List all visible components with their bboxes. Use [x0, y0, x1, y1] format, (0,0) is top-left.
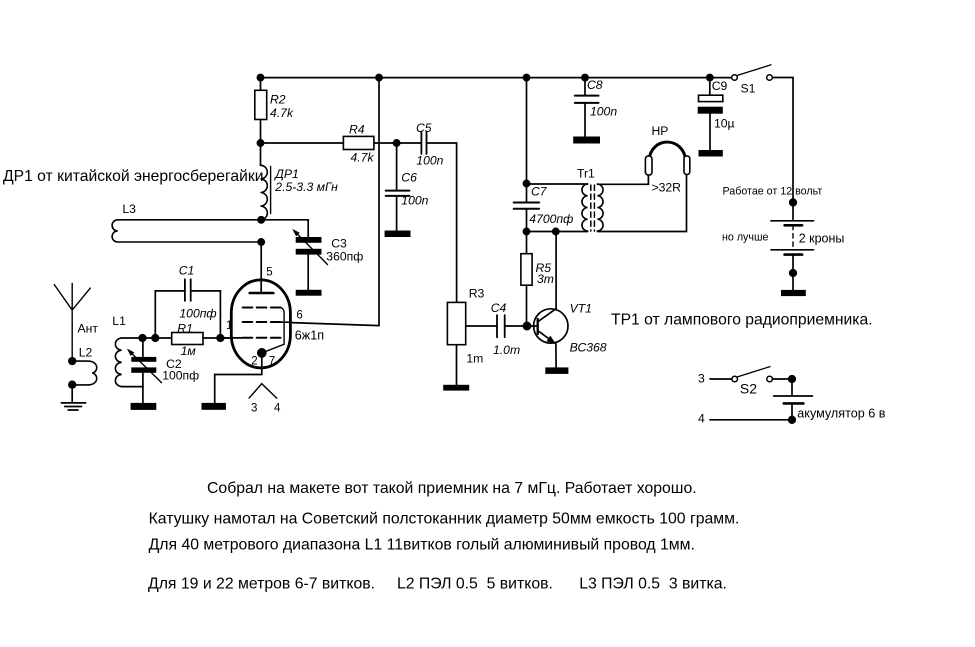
- svg-text:Ант: Ант: [78, 322, 99, 336]
- svg-text:2.5-3.3 мГн: 2.5-3.3 мГн: [274, 180, 338, 194]
- node top rail / C9: [707, 75, 713, 81]
- capacitor C5: [421, 132, 426, 154]
- node antenna / L2 top: [69, 358, 76, 365]
- label S2: [740, 381, 757, 397]
- resistor R5: [521, 254, 532, 326]
- wire R4 row: [261, 142, 422, 144]
- node L3 bottom / tube anode: [258, 239, 264, 245]
- node L2 bottom: [69, 381, 76, 388]
- label tube pin 6: [296, 310, 302, 322]
- label C9 value: [712, 79, 735, 131]
- svg-text:10µ: 10µ: [714, 117, 735, 131]
- ground C9: [699, 150, 723, 157]
- headphones HP: [645, 142, 689, 175]
- svg-text:HP: HP: [652, 124, 669, 138]
- svg-text:4.7k: 4.7k: [270, 106, 294, 120]
- switch S2: [732, 367, 772, 382]
- wire L2 to earth: [71, 385, 73, 403]
- svg-text:C7: C7: [531, 185, 548, 199]
- battery B2 accumulator: [774, 396, 813, 420]
- svg-text:4.7k: 4.7k: [351, 151, 375, 165]
- svg-text:4700пф: 4700пф: [529, 212, 573, 226]
- svg-text:7: 7: [269, 355, 275, 367]
- node battery bottom: [790, 270, 797, 277]
- svg-text:R4: R4: [349, 123, 365, 137]
- svg-text:R1: R1: [177, 321, 193, 335]
- label tube pin 3: [251, 403, 257, 415]
- label R4 value: [349, 123, 374, 165]
- label note TR1 source: [611, 311, 873, 328]
- svg-text:100пф: 100пф: [179, 306, 216, 320]
- wire Tr1 secondary bottom to phones: [597, 175, 686, 232]
- capacitor C8: [575, 77, 599, 137]
- label battery 2 krony: [799, 232, 845, 246]
- earth ground antenna: [61, 403, 85, 410]
- label R2 value: [270, 92, 294, 120]
- svg-text:C3: C3: [331, 237, 347, 251]
- wire Tr1 primary bottom: [527, 231, 588, 233]
- label tube pin 1: [226, 320, 232, 332]
- transformer Tr1 secondary: [597, 184, 603, 231]
- ground C6: [385, 231, 411, 238]
- label S1: [741, 82, 756, 96]
- svg-text:6: 6: [296, 310, 302, 322]
- label VT1 type: [570, 302, 607, 355]
- capacitor C4: [466, 315, 538, 337]
- wire C7 branch from rail: [526, 77, 528, 203]
- svg-text:но лучше: но лучше: [722, 232, 769, 244]
- node B2 bottom: [789, 417, 796, 424]
- resistor R4: [343, 136, 374, 149]
- svg-text:S1: S1: [741, 82, 756, 96]
- arrow C2 variable: [127, 349, 162, 383]
- node C7 top / Tr1 primary top: [523, 180, 529, 186]
- label terminal 3: [698, 372, 705, 386]
- ground tube cathode: [202, 403, 226, 410]
- wire top supply rail: [261, 77, 732, 79]
- node B2 top: [789, 376, 796, 383]
- node top rail / pin6 drop: [376, 75, 382, 81]
- inductor L1: [115, 338, 143, 387]
- svg-text:2 кроны: 2 кроны: [799, 232, 845, 246]
- tube grid pin1 lead: [220, 337, 243, 339]
- svg-text:ДР1: ДР1: [273, 167, 299, 181]
- label R1 value: [177, 321, 196, 358]
- svg-text:Tr1: Tr1: [577, 167, 595, 181]
- inductor L2: [72, 361, 97, 385]
- svg-text:ВС368: ВС368: [570, 341, 607, 355]
- node C7 bottom: [523, 228, 529, 234]
- wire VT1 collector: [555, 232, 557, 309]
- capacitor C9 polarized: [698, 77, 723, 150]
- svg-text:4: 4: [274, 403, 281, 415]
- svg-text:100n: 100n: [401, 193, 428, 207]
- svg-text:R3: R3: [469, 287, 485, 301]
- svg-text:L1: L1: [112, 314, 126, 328]
- svg-text:4: 4: [698, 412, 705, 426]
- wire S2 to battery B2: [773, 379, 793, 396]
- label L3: [122, 202, 136, 216]
- svg-text:Работае от 12 вольт: Работае от 12 вольт: [723, 185, 823, 197]
- ground VT1 emitter: [545, 367, 568, 374]
- svg-text:1m: 1m: [466, 352, 483, 366]
- svg-text:Катушку намотал на Советский п: Катушку намотал на Советский полстоканни…: [149, 511, 740, 528]
- tube heater pins 3-4: [249, 384, 277, 398]
- inductor DR1 choke: [261, 143, 271, 220]
- label note DR1 source: [3, 168, 263, 185]
- ground C8: [573, 137, 600, 144]
- svg-text:3m: 3m: [537, 272, 554, 286]
- node C4 / R5 / base: [523, 322, 530, 329]
- note line 1: [207, 480, 697, 497]
- antenna: [54, 284, 90, 362]
- tube U1 envelope 6zh1p: [231, 280, 290, 368]
- node top rail / R2 top: [257, 75, 263, 81]
- capacitor C7: [514, 203, 539, 254]
- svg-text:R2: R2: [270, 92, 286, 106]
- svg-text:Для 19 и 22 метров 6-7 витков.: Для 19 и 22 метров 6-7 витков. L2 ПЭЛ 0.…: [148, 575, 727, 592]
- tube grid pin6 lead: [281, 321, 292, 323]
- label DR1 value: [273, 167, 338, 194]
- node DR1 bottom / L3 top: [258, 217, 264, 223]
- label C7 value: [529, 185, 573, 227]
- label C6 value: [401, 171, 428, 208]
- svg-text:акумулятор 6 в: акумулятор 6 в: [797, 407, 885, 421]
- wire VT1 emitter to ground: [555, 344, 557, 368]
- svg-text:6ж1п: 6ж1п: [295, 329, 324, 343]
- node C1 left leg: [152, 335, 159, 342]
- wire C3 to ground: [307, 255, 309, 290]
- ground battery B1: [781, 290, 806, 296]
- label tube pin 7: [269, 355, 275, 367]
- label C3 value: [326, 237, 363, 264]
- svg-text:C9: C9: [712, 79, 728, 93]
- label L1: [112, 314, 126, 328]
- tube anode pin5: [250, 242, 274, 293]
- note line 3: [149, 537, 695, 554]
- svg-text:3: 3: [698, 372, 705, 386]
- arrow C3 variable: [292, 229, 327, 265]
- svg-text:L3: L3: [122, 202, 136, 216]
- label C2 value: [162, 357, 199, 383]
- ground C3: [296, 290, 322, 296]
- battery B1 2 krony: [771, 221, 814, 290]
- svg-text:S2: S2: [740, 381, 757, 397]
- svg-text:ДР1 от китайской энергосберега: ДР1 от китайской энергосберегайки: [3, 168, 263, 185]
- svg-text:3: 3: [251, 403, 257, 415]
- wire Tr1 secondary top to phones: [597, 175, 648, 184]
- node collector branch: [553, 228, 559, 234]
- variable capacitor C3: [296, 237, 322, 255]
- resistor R1: [172, 333, 232, 345]
- label C4 value: [491, 301, 520, 357]
- svg-text:Собрал на макете вот такой при: Собрал на макете вот такой приемник на 7…: [207, 480, 697, 497]
- resistor R2: [255, 77, 267, 143]
- svg-text:ТР1 от лампового радиоприемник: ТР1 от лампового радиоприемника.: [611, 311, 873, 328]
- wire S1 to battery: [772, 78, 793, 221]
- svg-text:1м: 1м: [181, 344, 197, 358]
- wire terminal 4: [710, 419, 792, 421]
- label tube type 6zh1p: [295, 329, 324, 343]
- label L2: [79, 346, 93, 360]
- node top rail / C8: [582, 75, 588, 81]
- svg-text:>32R: >32R: [652, 181, 682, 195]
- label HP: [652, 124, 669, 138]
- svg-text:C4: C4: [491, 301, 507, 315]
- svg-text:VT1: VT1: [570, 302, 592, 316]
- node battery top: [790, 199, 797, 206]
- node top rail / C7 branch: [523, 75, 529, 81]
- svg-text:100пф: 100пф: [162, 369, 199, 383]
- transistor VT1: [534, 309, 568, 344]
- label tube pin 2: [251, 355, 257, 367]
- label C1 value: [179, 263, 217, 320]
- label Tr1: [577, 167, 595, 181]
- resistor R3: [447, 302, 465, 384]
- label phones impedance: [652, 181, 682, 195]
- wire terminal 3: [710, 378, 732, 380]
- tube internal screen lead: [264, 308, 285, 353]
- svg-text:L2: L2: [79, 346, 93, 360]
- capacitor C1 bridge: [155, 279, 220, 338]
- label R5 value: [536, 261, 554, 286]
- wire node to C3: [261, 220, 308, 237]
- svg-text:Для 40 метрового диапазона L1: Для 40 метрового диапазона L1 11витков г…: [149, 537, 695, 554]
- svg-text:1: 1: [226, 320, 232, 332]
- wire L1 top to node: [122, 337, 172, 339]
- switch S1: [732, 65, 773, 80]
- tube grid rows: [243, 308, 281, 338]
- label battery note better: [722, 232, 769, 244]
- svg-text:1.0m: 1.0m: [493, 343, 520, 357]
- tube cathode node: [258, 349, 266, 357]
- label C8 value: [587, 78, 617, 119]
- wire C5 to R3 top: [427, 143, 457, 302]
- svg-text:C6: C6: [401, 171, 417, 185]
- variable capacitor C2: [131, 338, 156, 403]
- label tube pin 4: [274, 403, 281, 415]
- label tube pin 5: [266, 267, 272, 279]
- svg-text:5: 5: [266, 267, 272, 279]
- ground R3: [443, 385, 469, 391]
- note line 2: [149, 511, 740, 528]
- svg-text:360пф: 360пф: [326, 250, 363, 264]
- transformer Tr1 core: [591, 185, 595, 231]
- svg-text:100n: 100n: [590, 105, 617, 119]
- svg-text:100n: 100n: [416, 153, 443, 167]
- inductor L3: [112, 220, 261, 242]
- label terminal 4: [698, 412, 705, 426]
- label accumulator 6v: [797, 407, 885, 421]
- label C5 value: [416, 121, 444, 167]
- svg-text:C8: C8: [587, 78, 603, 92]
- transformer Tr1 primary: [582, 184, 588, 231]
- label R3 value: [466, 287, 484, 366]
- svg-text:C5: C5: [416, 121, 432, 135]
- wire tube cathode pin2 to ground: [215, 353, 262, 403]
- wire pin6 drop from rail: [292, 77, 380, 326]
- node L1/C2: [139, 335, 146, 342]
- label battery note 12v: [723, 185, 823, 197]
- node C5/C6 junction: [394, 140, 400, 146]
- label antenna: [78, 322, 99, 336]
- note line 4: [148, 575, 727, 592]
- node R2 bottom / R4 row: [257, 140, 263, 146]
- svg-text:C1: C1: [179, 263, 195, 277]
- svg-text:2: 2: [251, 355, 257, 367]
- capacitor C6: [386, 143, 410, 231]
- node R1 right / pin1: [217, 335, 224, 342]
- ground C2: [131, 403, 157, 410]
- wire Tr1 primary top: [527, 183, 588, 185]
